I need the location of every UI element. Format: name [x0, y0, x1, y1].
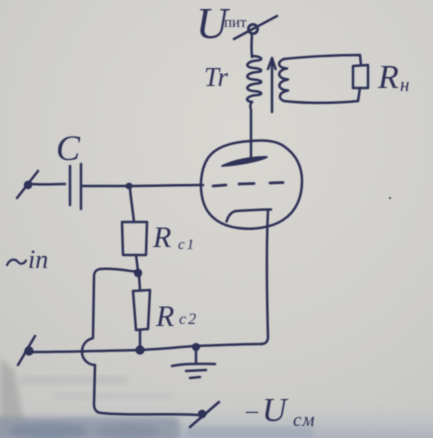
- ghost text smudge 1c: [96, 424, 160, 438]
- wire input to capacitor: [31, 183, 65, 186]
- input terminal bottom slash: [18, 336, 35, 365]
- tube anode: [222, 157, 267, 166]
- resistor Rn: [353, 65, 368, 88]
- ghost text smudge 2: [185, 427, 315, 438]
- transformer Tr secondary winding: [279, 59, 288, 101]
- tube grid (dashed): [213, 183, 283, 187]
- svg-text:см: см: [293, 410, 316, 431]
- wire primary to anode: [250, 102, 252, 159]
- terminal Upit slash: [234, 16, 277, 39]
- resistor Rc1: [122, 222, 147, 255]
- resistor Rc2: [133, 290, 150, 330]
- svg-text:R: R: [152, 221, 171, 254]
- wire secondary top to Rn: [284, 55, 361, 65]
- svg-text:пит: пит: [224, 15, 247, 31]
- wire bias loop: [82, 269, 198, 415]
- tube cathode: [227, 210, 272, 222]
- ghost text smudge 1b: [8, 423, 88, 438]
- svg-text:U: U: [262, 392, 289, 429]
- wire junction to Rc1: [130, 189, 134, 222]
- bottom bluish band (show-through): [0, 392, 433, 438]
- svg-text:–: –: [245, 398, 259, 424]
- svg-text:Tr: Tr: [204, 62, 229, 92]
- wire node B to Rc2: [139, 275, 140, 290]
- ghost text smudge 3: [18, 376, 128, 384]
- capacitor C left plate: [69, 166, 72, 205]
- input terminal bottom dot: [24, 346, 33, 355]
- svg-text:c2: c2: [179, 311, 198, 328]
- svg-text:in: in: [28, 245, 48, 274]
- svg-text:R: R: [155, 300, 174, 333]
- ground junction dot: [192, 343, 200, 351]
- wire secondary bottom from Rn: [284, 101, 358, 103]
- transformer core arrow: [268, 58, 276, 112]
- wire supply to primary: [250, 34, 253, 57]
- capacitor C right plate: [80, 164, 83, 209]
- bottom-left corner shadow: [0, 358, 27, 438]
- wire capacitor to junction and grid: [82, 185, 203, 186]
- svg-text:н: н: [400, 75, 409, 96]
- terminal -Ucm slash: [190, 402, 219, 427]
- wire Rc1 to node B: [136, 255, 138, 271]
- node C junction dot: [135, 345, 144, 354]
- ground: [172, 348, 215, 378]
- svg-text:R: R: [377, 59, 399, 96]
- input terminal top: [17, 171, 38, 198]
- ghost text smudge 1: [0, 417, 180, 438]
- wire Rn bottom: [358, 88, 360, 101]
- node A junction dot: [126, 183, 133, 190]
- svg-text:c1: c1: [178, 237, 196, 253]
- wire cathode lead down: [261, 211, 268, 344]
- tube envelope: [201, 141, 302, 229]
- wire bottom main: [31, 344, 262, 352]
- svg-text:C: C: [56, 128, 81, 168]
- terminal Upit (supply): [248, 24, 257, 33]
- label ~in tilde: [7, 260, 26, 265]
- input terminal top dot: [24, 181, 32, 189]
- node B junction dot: [134, 269, 142, 277]
- ghost text smudge 4: [55, 393, 175, 400]
- terminal -Ucm dot: [198, 410, 206, 418]
- transformer Tr primary winding: [247, 56, 261, 102]
- wire Rc2 to bottom wire: [139, 330, 142, 347]
- paper speck: [389, 197, 392, 200]
